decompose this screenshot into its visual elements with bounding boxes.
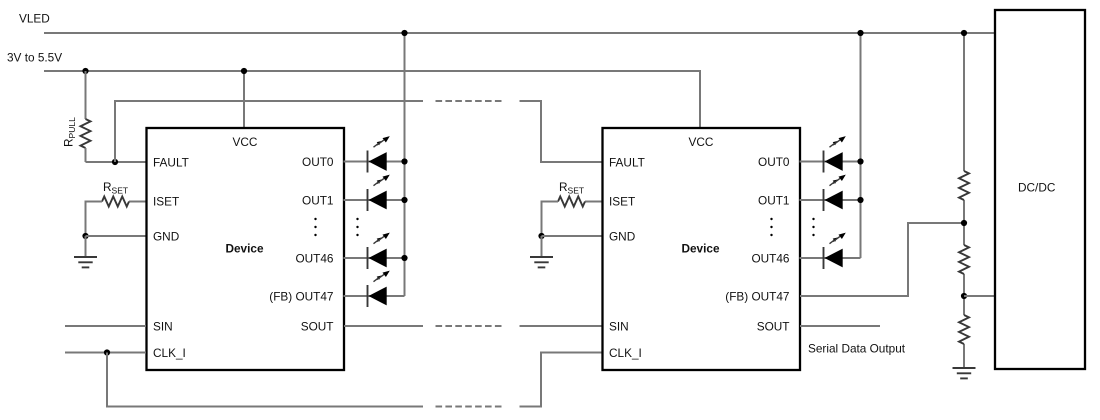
resistor R3 bottom of divider [959,315,969,344]
svg-text:(FB) OUT47: (FB) OUT47 [269,289,333,303]
wire clock chain down/across [107,353,423,407]
device U2 box [603,128,801,370]
wire OUT47 feedback up-and-over [800,223,964,296]
resistor R1 top of divider [959,171,969,200]
junction bus1 OUT1 [401,197,407,203]
junction 3V/VCC1 [241,68,247,74]
wire fault bus dashed continuation [436,100,503,102]
junction divider top [961,30,967,36]
resistor RSET (second device) [542,180,603,236]
wire clock chain dashed [436,406,503,408]
wire GND1 to pin [86,235,147,237]
wire SIN1 input stub [65,325,146,327]
svg-text:SIN: SIN [609,319,629,333]
LED D3 on OUT46 [344,233,405,269]
wire 3V supply rail with corner down to VCC of second device [44,71,700,128]
wire LED bus 1 [404,33,406,296]
junction bus1 top [401,30,407,36]
junction bus2 OUT0 [857,158,863,164]
svg-text:SOUT: SOUT [757,319,790,333]
svg-text:RSET: RSET [559,180,584,196]
wire LED bus 2 [860,33,862,258]
svg-text:RPULL: RPULL [62,117,78,147]
LED D4 on OUT47 [344,271,405,307]
wire RPULL to FAULT1 [86,161,147,163]
LED D7 on OUT46 [800,233,861,269]
LED D1 on OUT0 [344,136,405,172]
resistor RSET (first device) [86,180,147,236]
LED D5 on OUT0 [800,136,861,172]
svg-text:VCC: VCC [689,135,714,149]
junction CLK1 [104,349,110,355]
resistor RPULL [62,71,91,162]
wire fault bus to FAULT2 [520,101,603,162]
junction divider/OUT47 [961,220,967,226]
svg-text:DC/DC: DC/DC [1018,181,1056,195]
ground symbol 1 [74,236,97,267]
svg-text:GND: GND [153,229,179,243]
junction divider/FB [961,293,967,299]
svg-text:Device: Device [681,241,719,255]
svg-text:GND: GND [609,229,635,243]
svg-text:SIN: SIN [153,319,173,333]
DC/DC converter block [995,10,1085,369]
svg-text:FAULT: FAULT [153,155,189,169]
svg-text:VCC: VCC [233,135,258,149]
svg-text:OUT1: OUT1 [758,193,789,207]
svg-text:ISET: ISET [153,194,179,208]
wire into SIN2 [520,325,603,327]
svg-text:FAULT: FAULT [609,155,645,169]
wire SOUT1 to SIN2 solid [344,325,423,327]
svg-text:SOUT: SOUT [301,319,334,333]
junction bus2 OUT1 [857,197,863,203]
ellipsis in U2 LED column [812,218,814,236]
wire VLED rail [44,32,995,34]
wire SOUT2 stub [800,325,880,327]
junction GND1 [82,233,88,239]
wire fault bus up and across [115,101,423,162]
device U1 box [147,128,345,370]
ellipsis inside U2 [770,218,772,236]
LED D2 on OUT1 [344,175,405,211]
ellipsis in U1 LED column [356,218,358,236]
divider chain wires [963,33,965,368]
wire VCC drop to first device [243,71,245,128]
junction 3V/RPULL [82,68,88,74]
junction bus2 top [857,30,863,36]
svg-text:OUT46: OUT46 [751,251,789,265]
wire GND2 to pin [542,235,603,237]
junction bus1 OUT46 [401,255,407,261]
wire SOUT1 to SIN2 dashed [436,325,503,327]
svg-text:ISET: ISET [609,194,635,208]
wire FB to DC/DC [964,295,995,297]
ellipsis inside U1 [314,218,316,236]
ground symbol divider [953,368,976,378]
svg-text:OUT0: OUT0 [758,155,790,169]
LED D6 on OUT1 [800,175,861,211]
wire CLK1 input stub [65,352,146,354]
svg-text:CLK_I: CLK_I [153,346,186,360]
junction fault bus [112,159,118,165]
svg-text:OUT0: OUT0 [302,155,334,169]
wire clock chain to CLK2 [520,353,603,407]
svg-text:3V to 5.5V: 3V to 5.5V [7,51,62,65]
svg-text:OUT1: OUT1 [302,193,333,207]
ground symbol 2 [530,236,553,267]
svg-text:OUT46: OUT46 [295,251,333,265]
svg-text:CLK_I: CLK_I [609,346,642,360]
svg-text:RSET: RSET [103,180,128,196]
svg-text:VLED: VLED [19,12,50,26]
junction bus1 OUT0 [401,158,407,164]
junction GND2 [538,233,544,239]
resistor R2 middle of divider [959,245,969,274]
svg-text:Serial Data Output: Serial Data Output [808,342,906,356]
svg-text:(FB) OUT47: (FB) OUT47 [725,289,789,303]
svg-text:Device: Device [225,241,263,255]
